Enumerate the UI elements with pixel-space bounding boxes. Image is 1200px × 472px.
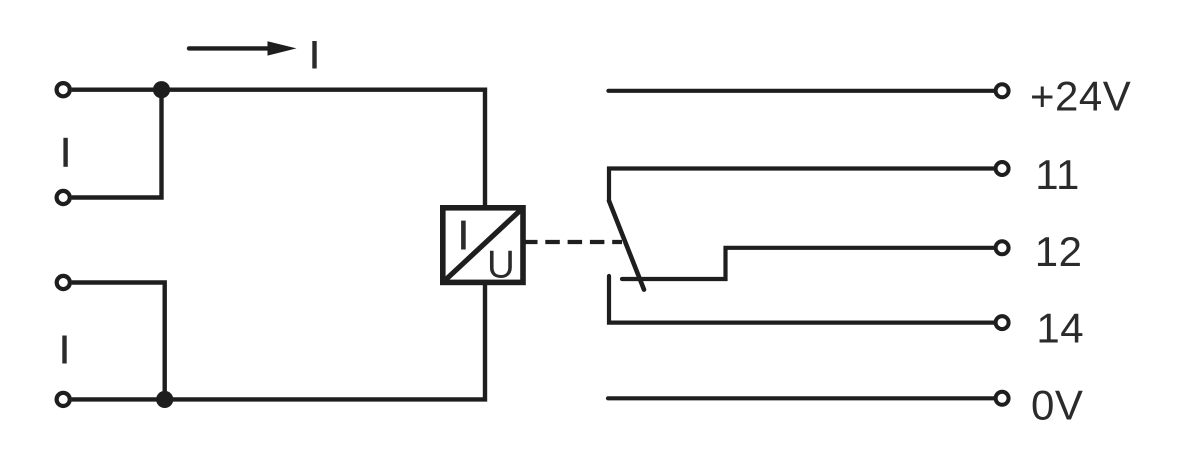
rail +24V (608, 89, 994, 93)
wire T4 to converter bottom (72, 282, 485, 399)
terminal T3 (current input 2, +) (57, 276, 70, 289)
label I (converter) (461, 221, 466, 250)
terminal 12 (996, 241, 1009, 254)
wire J1 down (72, 88, 162, 198)
node J2 (156, 391, 173, 408)
node J1 (153, 81, 170, 98)
svg-text:12: 12 (1035, 228, 1083, 275)
dashed link converter to contact (523, 240, 622, 244)
terminal +24V (996, 84, 1009, 97)
label I (input 2) (62, 336, 66, 364)
wire T1 to converter top (72, 90, 485, 208)
wire T3 down to J2 (72, 283, 165, 400)
terminal T2 (current input 1, -) (57, 191, 70, 204)
contact line and rail 12 (622, 248, 994, 279)
svg-text:0V: 0V (1031, 382, 1083, 429)
stub and rail 14 (609, 276, 994, 323)
contact armature (609, 201, 644, 290)
svg-text:11: 11 (1035, 151, 1080, 198)
converter U1 diagonal (443, 208, 523, 283)
terminal T4 (current input 2, -) (57, 393, 70, 406)
svg-text:14: 14 (1036, 305, 1084, 352)
rail 11 and pivot drop (609, 169, 994, 201)
rail 0V (608, 396, 994, 400)
arrow (current direction) (189, 46, 272, 50)
svg-text:U: U (487, 244, 515, 287)
terminal T1 (current input 1, +) (57, 83, 70, 96)
label I (arrow) (312, 41, 316, 69)
terminal 14 (996, 316, 1009, 329)
converter U1 (I/U box) (443, 208, 523, 283)
terminal 0V (996, 392, 1009, 405)
terminal 11 (996, 162, 1009, 175)
label I (input 1) (63, 138, 67, 167)
svg-text:+24V: +24V (1030, 73, 1131, 120)
